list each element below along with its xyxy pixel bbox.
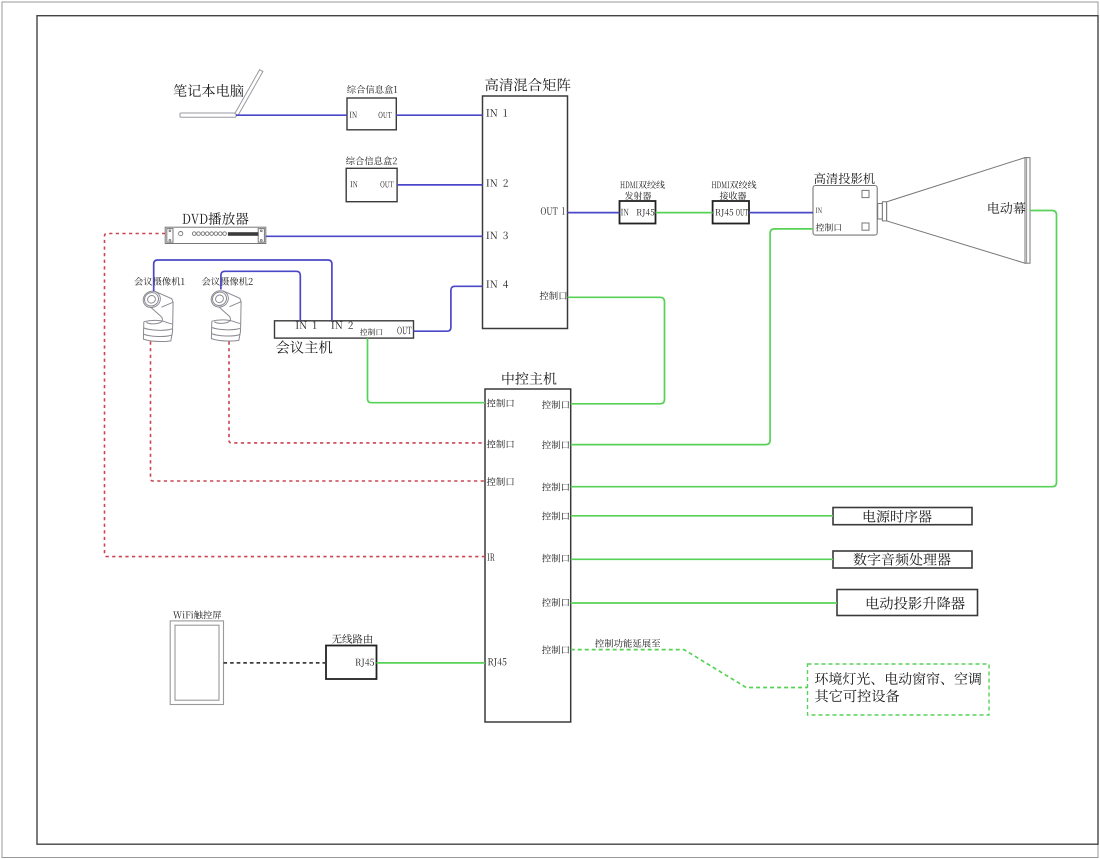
host left port 控制口 [487, 440, 514, 449]
matrix port 控制口 [540, 291, 567, 300]
projector lens [878, 204, 883, 220]
label 其它可控设备 [815, 689, 899, 702]
wire host to 电动投影升降器 [571, 602, 837, 604]
DVD player body [165, 227, 266, 243]
projection beam cone [887, 158, 1025, 264]
wire laptop to 综合信息盒1 IN [236, 114, 347, 116]
host left port RJ45 [488, 658, 507, 666]
box 数字音频处理器 [833, 551, 972, 568]
port 控制口 of 会议主机 [360, 328, 382, 335]
box 高清混合矩阵 [483, 96, 568, 329]
label HDMI双绞线 (transmitter) [620, 181, 665, 189]
wire host right port 2 to projector 控制口 [571, 229, 813, 445]
laptop 笔记本电脑 icon [180, 70, 263, 118]
label 电源时序器 [864, 510, 932, 523]
host right port 控制口 [542, 400, 569, 409]
matrix port IN 3 [486, 232, 507, 240]
DVD disc slot [228, 232, 258, 236]
box 综合信息盒2 [346, 168, 397, 201]
dashed wire DVD to host IR [105, 234, 486, 557]
label 会议主机 [276, 340, 332, 353]
transmitter port IN [621, 209, 629, 215]
wire 综合信息盒2 OUT to matrix IN 2 [397, 184, 482, 186]
box 无线路由 [326, 646, 377, 680]
label 数字音频处理器 [853, 553, 950, 566]
wire host to 电源时序器 [571, 515, 833, 517]
dashed wire 会议摄像机1 to host 控制口 [151, 342, 486, 482]
label 控制功能延展至 [595, 639, 660, 648]
host right port 控制口 [542, 598, 569, 607]
host right port 控制口 [542, 483, 569, 492]
label 高清混合矩阵 [485, 78, 570, 91]
receiver port OUT [736, 209, 748, 216]
wire 无线路由 to host RJ45 [377, 662, 486, 664]
host right port 控制口 [542, 440, 569, 449]
label DVD播放器 [183, 212, 249, 225]
box 电动投影升降器 [837, 590, 978, 616]
receiver port RJ45 [715, 209, 733, 217]
dashed wire WiFi触控屏 to 无线路由 [224, 662, 327, 664]
label 笔记本电脑 [174, 84, 244, 97]
wire matrix OUT 1 to HDMI transmitter IN [568, 212, 620, 214]
box 会议主机 [275, 321, 414, 338]
box 综合信息盒1 [347, 98, 396, 130]
transmitter port RJ45 [637, 209, 655, 217]
port OUT of 综合信息盒1 [379, 112, 392, 118]
label 发射器 [625, 191, 652, 199]
label 高清投影机 [814, 173, 874, 184]
matrix port IN 2 [486, 179, 508, 187]
label 综合信息盒2 [346, 156, 397, 165]
port IN 2 of 会议主机 [331, 322, 353, 330]
label 无线路由 [332, 634, 372, 644]
wire 综合信息盒1 OUT to matrix IN 1 [396, 114, 482, 116]
port OUT of 综合信息盒2 [380, 181, 393, 187]
host right port 控制口 [542, 645, 569, 654]
wire 会议摄像机2 to 会议主机 IN 1 [221, 271, 300, 321]
camera 会议摄像机1 [140, 288, 173, 341]
matrix port OUT 1 [541, 207, 565, 215]
wire HDMI receiver OUT to projector IN [749, 212, 813, 214]
port IN of 综合信息盒1 [350, 112, 357, 118]
label 中控主机 [502, 372, 556, 385]
projector port 控制口 [816, 223, 842, 231]
label 会议摄像机2 [202, 277, 253, 286]
host left port 控制口 [487, 477, 514, 486]
box HDMI transmitter [620, 201, 656, 224]
camera 会议摄像机2 [208, 288, 241, 341]
wire DVD to matrix IN 3 [266, 235, 483, 237]
router port RJ45 [355, 659, 374, 667]
wire 电动幕 to host right port 3 [571, 211, 1057, 487]
wire host to 数字音频处理器 [571, 558, 833, 560]
wire 会议主机 OUT to matrix IN 4 [414, 286, 483, 331]
port IN of 综合信息盒2 [350, 181, 357, 187]
DVD player screws and buttons [169, 230, 262, 241]
label HDMI双绞线 (receiver) [712, 181, 757, 189]
label 电动幕 [988, 202, 1025, 214]
label 会议摄像机1 [134, 277, 184, 286]
port IN 1 of 会议主机 [296, 322, 317, 329]
box 高清投影机 [813, 186, 877, 236]
label WiFi触控屏 [173, 610, 221, 619]
box 电源时序器 [833, 508, 972, 525]
electric screen bar 电动幕 [1025, 158, 1030, 264]
label 接收器 [720, 192, 747, 200]
host right port 控制口 [542, 554, 569, 563]
dashed wire 会议摄像机2 to host 控制口 [229, 342, 485, 443]
WiFi touch screen 触控屏 [170, 621, 223, 705]
projector vent squares [862, 190, 869, 197]
box HDMI receiver [713, 201, 749, 224]
wire HDMI transmitter RJ45 to receiver RJ45 [656, 212, 713, 214]
matrix port IN 4 [486, 280, 508, 288]
dashed box 其它可控设备 [808, 664, 990, 715]
port OUT of 会议主机 [397, 327, 411, 335]
wire 会议主机 控制口 to host left port 1 [368, 338, 486, 403]
matrix port IN 1 [486, 109, 507, 116]
box 中控主机 [485, 389, 571, 722]
wire 会议摄像机1 to 会议主机 IN 2 [154, 260, 332, 321]
host left port IR [487, 554, 494, 561]
wire matrix 控制口 to host right port 1 [568, 297, 665, 404]
dashed wire host 控制口 to 其它可控设备 [571, 650, 808, 688]
host right port 控制口 [542, 512, 569, 521]
label 电动投影升降器 [867, 596, 965, 609]
label 综合信息盒1 [347, 85, 397, 94]
label 环境灯光、电动窗帘、空调 [815, 672, 981, 685]
host left port 控制口 [487, 399, 514, 408]
projector port IN [816, 208, 822, 213]
